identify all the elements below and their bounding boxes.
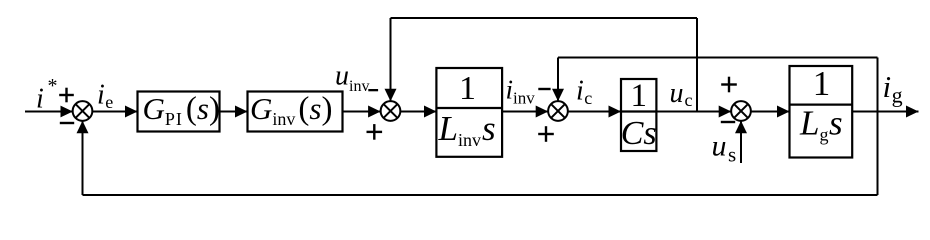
svg-text:iinv: iinv (506, 75, 536, 108)
svg-text:1: 1 (459, 70, 476, 107)
svg-text:uinv: uinv (335, 61, 369, 96)
svg-text:Lgs: Lgs (799, 104, 843, 145)
svg-text:i: i (36, 84, 44, 115)
svg-text:ic: ic (576, 76, 592, 109)
svg-text:1: 1 (813, 64, 831, 103)
svg-text:Linvs: Linvs (438, 109, 496, 150)
svg-text:Cs: Cs (621, 115, 657, 152)
svg-text:1: 1 (630, 78, 647, 114)
svg-text:ig: ig (883, 69, 903, 108)
svg-text:us: us (712, 130, 737, 167)
svg-text:ie: ie (97, 80, 113, 113)
svg-text:Ginv(s): Ginv(s) (250, 91, 332, 129)
svg-text:uc: uc (670, 78, 693, 110)
svg-text:*: * (48, 75, 58, 97)
svg-text:GPI(s): GPI(s) (143, 91, 220, 129)
